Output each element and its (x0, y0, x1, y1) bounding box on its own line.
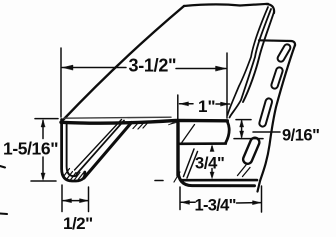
arrow bump on top line (168, 123, 177, 126)
panel right edge band line 3 (228, 7, 269, 115)
dim 1/2 left extension (61, 185, 63, 212)
return flange outer line (84, 123, 132, 179)
panel right edge band line 1 (243, 12, 274, 102)
J bar bottom line (180, 142, 226, 145)
nail slot A (276, 43, 291, 63)
svg-text:1/2": 1/2" (63, 214, 93, 233)
J bar right rounded corner (226, 121, 229, 142)
dim 9/16 lower tick (234, 138, 263, 140)
dim 1-3/4 line right (237, 202, 262, 204)
left leg outer line (62, 120, 85, 182)
nail hem right edge (258, 45, 296, 192)
nail slot B (271, 67, 284, 90)
dim 9/16 upper tick (236, 119, 251, 121)
dim 1/2 line (63, 200, 88, 202)
profile top surface thin line (64, 117, 171, 118)
dim 3-1/2 right extension (226, 53, 228, 118)
J hook capsule (242, 136, 261, 165)
panel right edge band line 2 (230, 9, 272, 118)
svg-text:3-1/2": 3-1/2" (129, 56, 177, 76)
return flange inner line (77, 121, 124, 174)
channel left wall (176, 123, 179, 176)
dim 3-1/2 line right (176, 68, 226, 70)
foot bend hatch (64, 169, 84, 181)
svg-text:1-5/16": 1-5/16" (3, 138, 58, 158)
svg-text:1-3/4": 1-3/4" (195, 196, 236, 214)
dim 9/16 vertical line (241, 121, 243, 137)
svg-text:3/4": 3/4" (195, 155, 225, 173)
dim 1 line right (216, 103, 230, 105)
dim 1-5/16 bottom tick (31, 180, 56, 182)
dim 3/4 arrow down (211, 169, 213, 177)
J bar hatch (182, 125, 195, 143)
panel left edge (63, 6, 184, 120)
hook base hatch (238, 165, 251, 177)
svg-text:9/16": 9/16" (282, 127, 319, 145)
bend corner hatch (174, 172, 180, 182)
left leg inner line (67, 124, 78, 176)
dim 1-3/4 left extension (179, 187, 181, 210)
dim 1-3/4 line left (181, 201, 195, 203)
dim 3/4 arrow up (211, 147, 213, 151)
stray mark left edge upper (0, 166, 5, 168)
dim 1 line left (180, 103, 194, 105)
dim 9/16 leader dash (253, 131, 280, 133)
nail slot C (259, 98, 273, 128)
nail hem top edge (259, 40, 295, 45)
dim 3-1/2 line left (62, 67, 126, 69)
channel wall hatch (184, 149, 198, 178)
dim 1 extension (177, 95, 179, 120)
flange end hatch ticks (133, 122, 147, 129)
stray dash left of bottom band (155, 180, 163, 182)
profile top thick line (61, 120, 227, 123)
dim 3-1/2 left extension (60, 48, 62, 117)
bottom band top line (181, 179, 258, 182)
stray mark left edge lower (0, 213, 7, 216)
dim 1-5/16 top tick (35, 118, 58, 120)
return flange inner second line (75, 120, 122, 171)
panel top edge (184, 4, 268, 6)
svg-text:1": 1" (198, 97, 216, 116)
dim 1-3/4 right extension (261, 186, 263, 212)
dim 1/2 right extension (88, 187, 90, 212)
panel right edge corner (266, 4, 274, 13)
dim 1-5/16 vertical line (42, 121, 44, 139)
channel bottom bend and band bottom line (178, 169, 255, 186)
